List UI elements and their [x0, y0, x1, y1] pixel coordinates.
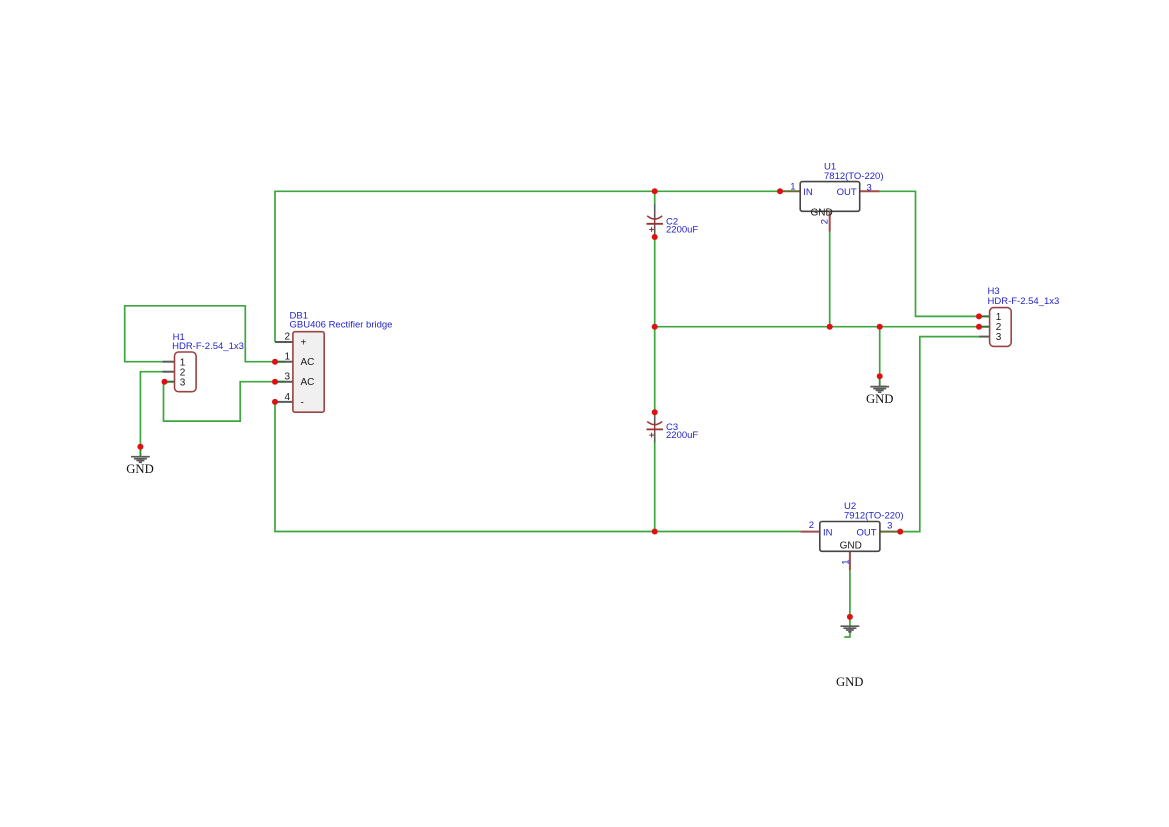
svg-text:4: 4 [284, 392, 290, 403]
svg-text:3: 3 [887, 521, 892, 532]
svg-text:GND: GND [840, 540, 862, 551]
svg-text:GND: GND [866, 392, 894, 406]
junction U1 pin1 [777, 188, 783, 194]
wire C2 top stub [654, 191, 656, 206]
wire H1 pin1 loop to DB1 pin1 [125, 306, 275, 362]
svg-text:GND: GND [810, 207, 832, 218]
junction H3 pin2 [976, 324, 982, 330]
svg-text:IN: IN [803, 187, 813, 198]
wire middle 0V rail C2/C3 to H3 pin2 [655, 326, 979, 328]
wire H1 pin2 to GND flag [140, 372, 162, 457]
svg-text:GBU406 Rectifier bridge: GBU406 Rectifier bridge [290, 319, 393, 330]
svg-text:3: 3 [180, 378, 186, 389]
ground flag at H1 pin2 [126, 447, 154, 476]
junction C3 top [652, 409, 658, 415]
junction DB1 pin4 [272, 399, 278, 405]
svg-text:7912(TO-220): 7912(TO-220) [844, 511, 904, 522]
wire H1 pin3 loop to DB1 pin3 [164, 382, 276, 421]
svg-text:1: 1 [841, 560, 852, 565]
ground flag at U2 pin1 [836, 626, 864, 689]
rectifier bridge DB1 [275, 311, 392, 413]
svg-text:2: 2 [284, 332, 290, 343]
svg-text:OUT: OUT [856, 527, 876, 538]
svg-text:+: + [301, 337, 307, 348]
svg-text:3: 3 [996, 332, 1002, 343]
wire DB1 pin2 to U1 pin1 (+ top rail) [275, 191, 780, 342]
regulator U1 7812 [780, 161, 884, 231]
svg-text:OUT: OUT [837, 187, 857, 198]
capacitor C3 [647, 414, 699, 443]
regulator U2 7912 [800, 501, 903, 570]
ground flag at middle rail [866, 376, 894, 406]
svg-text:AC: AC [301, 357, 315, 368]
junction H3 pin1 [976, 313, 982, 319]
junction C3 bottom rail [652, 529, 658, 535]
header H3 [979, 286, 1059, 347]
svg-text:2: 2 [820, 219, 831, 224]
junction H1 GND flag [137, 444, 143, 450]
header H1 [163, 332, 244, 392]
junction DB1 pin1 [272, 359, 278, 365]
junction U1 pin2 at middle rail [827, 324, 833, 330]
junction middle rail at C2/C3 [652, 324, 658, 330]
wire U2 pin1 GND drop [844, 570, 850, 637]
junction GND drop at middle rail [877, 324, 883, 330]
wire middle rail GND drop [879, 327, 881, 377]
junction U2 pin3 [897, 529, 903, 535]
junction mid GND flag [877, 373, 883, 379]
svg-text:2200uF: 2200uF [666, 224, 698, 235]
svg-text:HDR-F-2.54_1x3: HDR-F-2.54_1x3 [988, 296, 1060, 307]
svg-text:3: 3 [867, 182, 872, 193]
wire U1 pin3 OUT to H3 pin1 [880, 191, 979, 316]
junction H1 pin3 [162, 379, 168, 385]
junction C2 top rail [652, 188, 658, 194]
junction C2 bottom [652, 234, 658, 240]
svg-text:1: 1 [790, 181, 795, 192]
wire U1 pin2 GND to middle rail [829, 232, 831, 327]
junction U2 GND flag [847, 614, 853, 620]
wire H3 pin3 to U2 pin3 OUT [900, 337, 979, 532]
svg-text:GND: GND [126, 462, 154, 476]
wire mid GND flag stub [879, 376, 881, 386]
svg-text:-: - [301, 397, 304, 408]
svg-text:GND: GND [836, 675, 864, 689]
wire C3 bottom to bottom rail [654, 442, 656, 532]
wire C2 bottom to C3 top [654, 237, 656, 412]
svg-text:2: 2 [809, 520, 814, 531]
capacitor C2 [647, 205, 699, 236]
svg-text:IN: IN [823, 527, 833, 538]
svg-text:3: 3 [284, 371, 290, 382]
junction DB1 pin3 [272, 379, 278, 385]
svg-text:HDR-F-2.54_1x3: HDR-F-2.54_1x3 [172, 341, 244, 352]
svg-text:2200uF: 2200uF [666, 430, 698, 441]
svg-text:7812(TO-220): 7812(TO-220) [824, 171, 884, 182]
svg-text:1: 1 [284, 351, 290, 362]
svg-text:AC: AC [301, 377, 315, 388]
wire DB1 pin4 to U2 pin2 (- bottom rail) [275, 402, 800, 532]
